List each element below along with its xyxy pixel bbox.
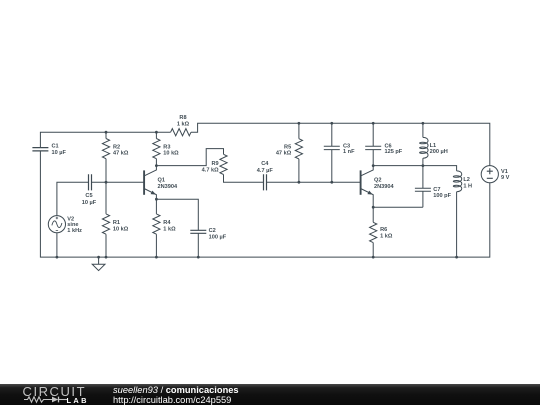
svg-text:C5: C5 (85, 193, 92, 199)
svg-text:10 kΩ: 10 kΩ (163, 150, 179, 156)
source V1 9V (481, 166, 498, 183)
resistor R6 1k (372, 207, 374, 222)
svg-text:100 µF: 100 µF (209, 235, 227, 241)
svg-text:C4: C4 (261, 161, 269, 167)
resistor R3 10k (155, 132, 157, 138)
inductor L2 1H (453, 171, 461, 192)
resistor R1 10k (105, 182, 107, 214)
capacitor C1 plates (32, 148, 48, 151)
svg-text:R4: R4 (163, 220, 171, 226)
wire Q2 collector to L2 top (373, 166, 456, 171)
transistor Q2 2N3904 (360, 170, 362, 194)
svg-text:R8: R8 (179, 115, 186, 121)
wire C4 to Q2 base (267, 181, 361, 183)
svg-text:R6: R6 (380, 227, 387, 233)
CircuitLab logo (23, 384, 87, 399)
resistor R4 1k (155, 199, 157, 214)
svg-text:L2: L2 (463, 177, 470, 183)
inductor L1 200uH (422, 123, 424, 137)
svg-text:2N3904: 2N3904 (374, 184, 394, 190)
wire C5 to Q1 base (92, 181, 144, 183)
capacitor C7 100pF (415, 166, 431, 208)
svg-text:10 µF: 10 µF (82, 200, 97, 206)
wire Q1 emitter to C2 (156, 199, 198, 230)
wire Q1 collector to R9 (156, 149, 223, 166)
source V2 sine (48, 216, 65, 233)
svg-text:4.7 kΩ: 4.7 kΩ (202, 168, 219, 174)
svg-text:1 kΩ: 1 kΩ (163, 227, 176, 233)
resistor R9 4.7k (220, 154, 227, 174)
svg-text:125 pF: 125 pF (385, 149, 403, 155)
wire R8 to upper supply rail and down right rail (191, 123, 490, 165)
svg-text:Q1: Q1 (158, 178, 165, 184)
svg-text:1 nF: 1 nF (343, 149, 355, 155)
svg-text:10 µF: 10 µF (52, 150, 67, 156)
wire V2 to C5 base wire (57, 182, 89, 215)
wire top rail / left rail upper (40, 132, 170, 147)
svg-text:10 kΩ: 10 kΩ (113, 227, 129, 233)
svg-text:R2: R2 (113, 144, 120, 150)
svg-text:47 kΩ: 47 kΩ (276, 151, 292, 157)
footer bar (0, 384, 540, 405)
svg-text:100 pF: 100 pF (433, 193, 451, 199)
svg-text:47 kΩ: 47 kΩ (113, 150, 129, 156)
svg-text:R5: R5 (284, 144, 291, 150)
capacitor C4 plates (264, 174, 267, 190)
capacitor C3 1nF (324, 123, 340, 182)
svg-text:Q2: Q2 (374, 178, 381, 184)
svg-text:R9: R9 (211, 161, 218, 167)
logo resistor-diode glyph and LAB (20, 394, 95, 406)
ground (98, 257, 100, 264)
svg-text:2N3904: 2N3904 (158, 184, 178, 190)
svg-text:200 µH: 200 µH (430, 149, 448, 155)
svg-text:C7: C7 (433, 187, 440, 193)
svg-text:R3: R3 (163, 144, 170, 150)
svg-text:1 kΩ: 1 kΩ (177, 122, 190, 128)
junction dots (105, 131, 108, 134)
svg-text:4.7 µF: 4.7 µF (257, 168, 274, 174)
wire Q2 emitter to C7 bottom (373, 206, 423, 208)
resistor R8 1 kOhm (171, 129, 191, 136)
svg-text:9 V: 9 V (501, 175, 510, 181)
resistor R2 47k (105, 132, 107, 138)
wire V2 to ground rail (56, 233, 58, 257)
svg-text:1 kΩ: 1 kΩ (380, 233, 393, 239)
footer text (113, 386, 239, 395)
wire left rail lower / bottom ground rail / right rail lower (40, 151, 489, 257)
wire C2 to ground rail (197, 233, 199, 257)
svg-text:R1: R1 (113, 220, 120, 226)
svg-text:C2: C2 (209, 228, 216, 234)
svg-text:1 kHz: 1 kHz (67, 228, 82, 234)
svg-text:V1: V1 (501, 169, 508, 175)
capacitor C5 plates (89, 174, 92, 190)
svg-text:C1: C1 (52, 144, 59, 150)
capacitor C2 plates (190, 230, 206, 233)
svg-text:1 H: 1 H (463, 183, 472, 189)
capacitor C6 125pF (365, 123, 381, 165)
transistor Q1 2N3904 (143, 170, 145, 194)
resistor R5 47k (298, 123, 300, 138)
